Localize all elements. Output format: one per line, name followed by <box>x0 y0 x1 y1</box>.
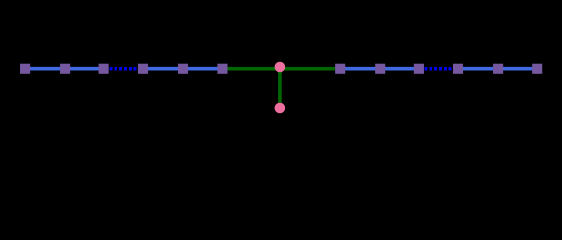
wire: green edge node 6 to center circle node 7 <box>222 67 279 71</box>
node 3 (purple square) <box>99 64 109 74</box>
node 12 (purple square) <box>493 64 503 74</box>
node 7 (center pink circle) <box>275 62 286 73</box>
wire: solid blue edge nodes 8-9-10 <box>340 67 419 71</box>
wire: dashed blue edge nodes 10-11 <box>420 67 458 71</box>
node 4 (purple square) <box>138 64 148 74</box>
node 14 (pendant pink circle below center) <box>275 103 286 114</box>
wire: dashed blue edge nodes 3-4 <box>105 67 143 71</box>
node 5 (purple square) <box>178 64 188 74</box>
node 13 (purple square) <box>532 64 542 74</box>
node 10 (purple square) <box>414 64 424 74</box>
wire: solid blue edge nodes 4-5-6 <box>143 67 222 71</box>
node 2 (purple square) <box>60 64 70 74</box>
node 8 (purple square) <box>335 64 345 74</box>
node 9 (purple square) <box>375 64 385 74</box>
node 11 (purple square) <box>453 64 463 74</box>
wire: green edge center circle node 7 to node 8 <box>280 67 340 71</box>
node 6 (purple square) <box>217 64 227 74</box>
wire: solid blue edge nodes 11-12-13 <box>458 67 537 71</box>
wire: solid blue edge nodes 1-2-3 <box>25 67 104 71</box>
node 1 (purple square) <box>20 64 30 74</box>
wire: green vertical edge node 7 to pendant circle node 14 <box>278 69 282 108</box>
